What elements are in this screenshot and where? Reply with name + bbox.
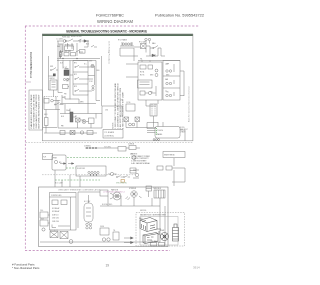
X-box relay (76, 118, 81, 122)
svg-text:NOTE:: NOTE: (180, 127, 185, 129)
outer box (39, 187, 169, 247)
svg-text:INVERTER BD: INVERTER BD (164, 155, 176, 157)
secondary interlock row (64, 53, 69, 56)
green wire dashed 4 (55, 179, 100, 181)
vertical dashes component (151, 104, 153, 116)
scattered wire labels (44, 58, 169, 117)
svg-text:RY3: RY3 (74, 86, 77, 88)
svg-text:L.V.T.: L.V.T. (64, 67, 68, 69)
relay board box middle (76, 166, 106, 176)
fuse F1 (63, 40, 66, 43)
power transformer T1 (120, 42, 134, 48)
buzzer BZ (82, 120, 86, 124)
svg-text:BLK: BLK (86, 44, 89, 46)
wire transformer to cap (134, 46, 150, 56)
microwave schematic outer box (42, 34, 193, 141)
green wire dashed 1 (67, 157, 130, 159)
svg-text:CONN B: CONN B (128, 144, 134, 146)
svg-text:CN-L: CN-L (40, 210, 44, 212)
left column interlock body (50, 80, 57, 90)
3D part inverter board (143, 233, 158, 244)
left comp box (63, 85, 69, 89)
detail box wires (157, 229, 161, 235)
control box bottom left (103, 130, 123, 139)
arrow symbols row (60, 163, 74, 165)
relay X-boxes (50, 232, 58, 238)
wires to comps (122, 106, 156, 128)
fuse comp right (157, 166, 163, 170)
noise filter box (43, 154, 53, 160)
wires down to bottom box (55, 170, 80, 187)
3D part capacitor bracket (173, 224, 179, 241)
svg-text:CN-N: CN-N (40, 218, 44, 220)
sub-box relay cell stack (73, 61, 88, 96)
page fold dashed border top (25, 25, 199, 27)
svg-text:SEE TEST: SEE TEST (180, 129, 188, 131)
aux contact (84, 45, 97, 47)
wide sub rect (138, 80, 153, 88)
svg-text:OVEN CAVITY THERMOSTAT / COMPO: OVEN CAVITY THERMOSTAT / COMPONENT LAYOU… (58, 189, 100, 192)
HV diode symbol (152, 54, 155, 57)
small comps lower mid (100, 228, 109, 235)
X-box small 2 (135, 117, 140, 122)
3D part magnetron (140, 218, 157, 232)
svg-text:RLY B: RLY B (140, 75, 144, 77)
switch secondary (76, 50, 83, 52)
left lower comp boxes (44, 99, 49, 104)
connector row (85, 147, 99, 149)
stirrer bracket hatches (126, 196, 142, 200)
left small circles (63, 78, 65, 80)
svg-text:3. SEE TECH SHEET: 3. SEE TECH SHEET (131, 161, 146, 163)
small box comp 2 (129, 146, 136, 150)
thermal switch comps (118, 175, 123, 177)
left column feed wire (48, 56, 50, 66)
svg-text:BEFORE SERVICING UNIT: BEFORE SERVICING UNIT (39, 93, 41, 128)
HV capacitor cylinder (84, 203, 93, 222)
diode arrow to node (84, 40, 87, 43)
svg-text:DANGER HIGH VOLTAGE: DANGER HIGH VOLTAGE (30, 94, 33, 129)
svg-text:P.C.B.: P.C.B. (127, 102, 132, 104)
svg-text:DOOR SW: DOOR SW (77, 168, 85, 170)
page fold dashed border bottom (25, 250, 170, 252)
left lower comp row (44, 97, 60, 110)
secondary section left box (138, 62, 162, 100)
svg-text:BLK: BLK (60, 62, 63, 64)
connector stack below panel (153, 139, 155, 141)
svg-text:1. DISCONNECT POWER: 1. DISCONNECT POWER (131, 156, 151, 158)
relay coil K1 (80, 50, 86, 54)
svg-text:PANEL: PANEL (157, 133, 162, 136)
orange comp (121, 180, 124, 183)
svg-text:STIRRER: STIRRER (129, 188, 137, 190)
connector pair right (92, 85, 94, 87)
small comp left of loop (135, 173, 138, 176)
touch panel rounded box (155, 127, 180, 139)
svg-text:SW1: SW1 (50, 66, 53, 68)
wire loop right (172, 158, 185, 186)
svg-text:TERM BLK: TERM BLK (153, 188, 162, 190)
svg-text:RY1: RY1 (74, 63, 77, 65)
connector block dark (70, 112, 73, 122)
cell contacts (76, 65, 82, 91)
svg-text:CN2: CN2 (120, 100, 123, 102)
top right comp box (100, 190, 108, 196)
wires into touch panel (147, 122, 185, 141)
wire drop left (58, 41, 77, 59)
bottom edge comp boxes (151, 243, 157, 246)
wire top supply line (57, 40, 88, 42)
subbox bottom wires (60, 95, 96, 104)
fan wire stubs (110, 193, 113, 199)
svg-text:RLY1 RLY2: RLY1 RLY2 (50, 230, 58, 232)
lower comps left box (140, 91, 145, 95)
3D part blower motor (161, 233, 169, 241)
svg-text:2. CHECK CONTINUITY: 2. CHECK CONTINUITY (131, 158, 149, 160)
svg-text:BRN: BRN (150, 75, 153, 77)
svg-text:DLB N.O.: DLB N.O. (52, 214, 59, 216)
small rect comps in left box (140, 65, 146, 69)
svg-text:MAGNETRON / INVERTER VIEW: MAGNETRON / INVERTER VIEW (140, 214, 166, 217)
svg-text:WIRING DIAGRAM: WIRING DIAGRAM (97, 19, 134, 24)
wire lower left (43, 110, 57, 134)
wire right (99, 147, 140, 149)
svg-text:MONITOR SW: MONITOR SW (71, 36, 82, 38)
right notes block (131, 153, 151, 165)
magnetron wires (120, 48, 138, 56)
center vertical bus (96, 56, 102, 106)
dashed detail box (136, 213, 185, 247)
small circle comp row3 (110, 172, 113, 175)
svg-text:CN3 CN4: CN3 CN4 (52, 221, 59, 223)
wire bus lower (57, 59, 100, 61)
HV capacitor C1 (141, 44, 147, 49)
svg-text:TB1 TB2: TB1 TB2 (151, 241, 157, 243)
X-box small 1 (124, 117, 129, 122)
comp small b (70, 131, 75, 135)
svg-text:Go To Testing Procedures: Go To Testing Procedures (108, 41, 111, 64)
svg-text:YEL: YEL (150, 92, 153, 94)
svg-text:CN1 CN2: CN1 CN2 (52, 218, 59, 220)
left dashed link (44, 96, 58, 98)
svg-text:CN4: CN4 (105, 110, 108, 112)
gray dashed separator (26, 142, 194, 144)
comp small d (87, 131, 93, 135)
svg-text:N.F.: N.F. (43, 157, 47, 159)
svg-text:TOUCH: TOUCH (157, 130, 164, 132)
inverter board label box (163, 152, 185, 158)
HV diode circles (145, 38, 147, 40)
svg-text:GRN: GRN (80, 102, 83, 104)
svg-text:RY2: RY2 (74, 74, 77, 76)
stirrer motor (131, 191, 137, 197)
svg-text:BRN: BRN (166, 75, 169, 77)
micro switch (125, 175, 130, 177)
bottom oven wiring box (39, 187, 185, 247)
small box comp (118, 147, 126, 152)
comp small c (80, 131, 83, 134)
top bus of secondary section (138, 61, 180, 63)
power board box (52, 155, 66, 170)
svg-text:Publication No. 5995543722: Publication No. 5995543722 (155, 14, 204, 18)
svg-text:NOTES:: NOTES: (131, 153, 138, 155)
svg-text:19: 19 (106, 264, 110, 268)
svg-text:BLK WHT RED: BLK WHT RED (102, 204, 113, 206)
comp small a (60, 131, 65, 135)
circle pair (129, 123, 132, 126)
magnetron fins (142, 224, 146, 230)
svg-text:12V: 12V (66, 81, 69, 83)
inner box (50, 193, 77, 231)
svg-text:BLU: BLU (61, 116, 64, 118)
interlock relay box (65, 46, 74, 50)
svg-text:SW2 SW3: SW2 SW3 (64, 51, 71, 53)
comp in inner box (52, 200, 58, 205)
green wire dashed 2 (66, 167, 76, 169)
connector circles under cap (86, 223, 88, 225)
transformer dark blob (64, 70, 69, 76)
svg-text:(CONTROL): (CONTROL) (105, 136, 115, 138)
wire links lower (73, 117, 91, 128)
microwave schematic green header bar (42, 34, 193, 36)
interlock switch SW2 (78, 39, 81, 41)
left column dark dot (53, 74, 55, 76)
svg-text:WHT: WHT (89, 61, 92, 63)
lamp socket box (89, 118, 95, 124)
comp rect cluster mid (130, 168, 136, 173)
cavity TCO switch (84, 41, 88, 47)
arrows into detail box (124, 237, 133, 244)
wire inside subbox (67, 61, 95, 100)
svg-text:GRN/YEL: GRN/YEL (140, 210, 147, 212)
resistor R1 (59, 51, 63, 52)
svg-text:FUSE: FUSE (100, 226, 104, 228)
stack right wires (174, 64, 184, 96)
svg-text:CONN A: CONN A (84, 144, 91, 147)
svg-text:GENERAL TROUBLESHOOTING SCHEMA: GENERAL TROUBLESHOOTING SCHEMATIC - MICR… (66, 30, 147, 34)
DANGER warning box (29, 90, 43, 130)
wire sub-box feeds (58, 59, 63, 93)
left column wires (49, 66, 54, 97)
bottom row left comps (57, 132, 97, 134)
center relay box (126, 104, 135, 111)
lower comp box (45, 118, 49, 126)
middle oven schematic section (26, 143, 194, 197)
node junction dots (63, 58, 64, 59)
gray dashed bus (42, 174, 135, 176)
green pin dots on panel (156, 128, 157, 135)
svg-text:* Non-Illustrated Parts: * Non-Illustrated Parts (12, 266, 40, 270)
secondary section right stack (163, 61, 180, 101)
svg-text:P.C. BOARD: P.C. BOARD (105, 131, 115, 134)
magnetron switch (150, 46, 161, 48)
svg-text:FGMC2766PBC Rev A: FGMC2766PBC Rev A (29, 52, 33, 78)
door sense resistor (60, 50, 62, 59)
svg-text:GRN: GRN (44, 114, 47, 116)
wire row2 (94, 106, 122, 128)
svg-text:INTERLOCK: INTERLOCK (65, 44, 75, 46)
wires main vertical (48, 192, 100, 228)
svg-text:FGMC2766PBC: FGMC2766PBC (96, 14, 124, 18)
right inner notes tiny block (180, 127, 188, 133)
wires down right cluster (146, 48, 165, 56)
scattered bottom box labels (40, 200, 147, 232)
page fold dashed border left (24, 26, 26, 250)
svg-text:YEL: YEL (166, 92, 169, 94)
stack cell circle pairs (166, 70, 168, 72)
connector cluster in board (88, 171, 90, 173)
terminal block comp (154, 190, 165, 198)
svg-text:Back To Interactive Schematic: Back To Interactive Schematic Overview (188, 86, 191, 122)
left margin tick mark (25, 81, 31, 83)
detail inner frame (140, 217, 178, 246)
svg-text:CONTROL BD: CONTROL BD (51, 195, 62, 197)
fan motor circles (113, 192, 121, 200)
bus wires (40, 196, 165, 246)
left connector blocks (40, 212, 48, 218)
relay pair above term block (146, 186, 152, 191)
circle pair in left box (155, 69, 158, 72)
lower switch symbol (56, 103, 64, 105)
svg-text:3914: 3914 (193, 266, 200, 270)
svg-text:GRN GRN/YEL: GRN GRN/YEL (116, 183, 127, 185)
left column door switch (52, 68, 58, 70)
interlock switch SW1 (69, 39, 75, 41)
svg-text:N.O. COM: N.O. COM (55, 182, 63, 184)
svg-text:WHT: WHT (57, 46, 60, 48)
lower components row (58, 100, 102, 128)
oven lamp LP (91, 64, 94, 67)
lamp circle end (132, 156, 136, 160)
wires feeding grid (126, 48, 158, 106)
rotated notes column (113, 82, 125, 129)
